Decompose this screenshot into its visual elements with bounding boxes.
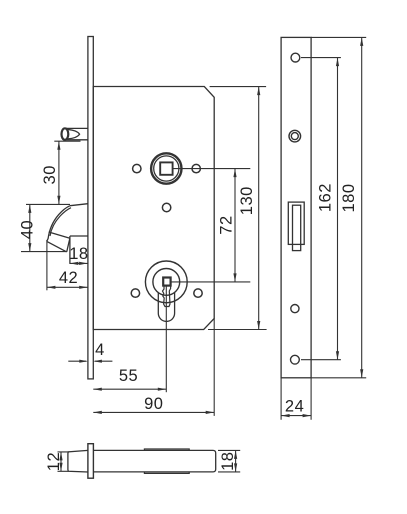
bottom screw hole [291,355,300,364]
extension line at hook bottom [21,251,66,253]
hook bolt top edge [70,204,88,206]
hole left of cylinder [131,289,139,297]
cylinder outer circle [145,261,187,303]
extension lines for 24 [281,378,311,420]
arrow 162 bottom [336,351,339,360]
follower square spindle hole [160,162,172,174]
latch bolt head ellipse [62,128,69,140]
arrow 4 right [93,360,102,363]
latch bolt top line [65,127,88,129]
extension line plate bottom [311,377,366,379]
hole right of cylinder [194,289,202,297]
arrow 162 top [336,58,339,67]
screw hole right of follower [192,164,200,172]
arrow 18 left [70,262,79,265]
latch cutout inner bolt [293,205,301,250]
svg-text:130: 130 [238,186,256,215]
extension lines for 18 (bottom) [218,450,240,472]
svg-text:42: 42 [59,269,78,287]
extension line from follower [174,168,251,170]
svg-text:180: 180 [340,183,358,212]
svg-text:72: 72 [218,215,236,234]
dimension line 90 [93,411,214,413]
dimension line 42 [47,286,88,288]
dimension line 55 [93,388,166,390]
arrow 130 bottom [257,321,260,330]
svg-text:18: 18 [69,245,88,263]
arrow 55 left [93,388,102,391]
cylinder profile stem [158,293,174,322]
dimension line 4 left segment [68,360,86,362]
extension line from cylinder center down [165,286,167,392]
lock body outline [93,87,214,330]
extension line under latch [54,140,80,142]
dimension line 130 [258,87,260,330]
arrow 30 bottom [57,196,60,205]
svg-text:40: 40 [18,220,36,239]
arrow 130 top [257,87,260,96]
hook bolt bevel face top [49,232,70,238]
extension lines for 12 [58,452,69,471]
extension line plate top [311,36,366,38]
svg-text:18: 18 [219,452,237,471]
top screw hole [291,53,300,62]
case overlay top [144,449,189,450]
svg-text:24: 24 [285,398,304,416]
svg-text:90: 90 [144,395,163,413]
arrow 90 right [206,411,215,414]
lower hole [291,305,299,313]
dimension line 4 right segment [95,360,113,362]
extension line body top right [210,86,267,88]
latch cutout outer [288,202,304,244]
arrow 12 top [59,452,62,461]
hook bolt outer arc [47,206,70,242]
arrow 180 bottom [360,369,363,378]
arrow 18 right [79,262,88,265]
arrow 40 top [28,204,31,213]
faceplate strip (main view) [88,37,93,379]
svg-text:30: 30 [41,165,59,184]
extension line body bottom right [208,329,267,331]
hook stem left edge / extension [69,236,71,264]
dimension line 162 [337,58,339,360]
faceplate (right view) [281,37,311,377]
latch bolt bevel wedge [68,130,80,139]
dimension line 30 [58,141,60,204]
svg-text:55: 55 [119,367,138,385]
arrow 90 left [93,411,102,414]
hook stem top edge [70,235,88,237]
svg-text:12: 12 [45,452,63,471]
arrow 24 right [303,414,312,417]
arrow 12 bottom [59,463,62,472]
arrow 18b bottom [234,463,237,472]
dimension line 180 [361,37,363,377]
extension line from cylinder center right [171,281,250,283]
follower outer circle [151,153,181,183]
hook bolt inner arc [50,208,71,236]
dimension line 24 [281,415,311,417]
svg-text:4: 4 [95,341,105,359]
keyway profile [163,286,171,307]
arrow 72 bottom [233,273,236,282]
faceplate bar (bottom view) [88,444,94,479]
arrow 40 bottom [28,243,31,252]
arrow 18b top [234,450,237,459]
follower inner circle [154,156,179,181]
arrow 180 top [360,37,363,46]
case overlay bottom [144,472,189,474]
screw hole left of follower [133,164,141,172]
arrow 24 left [281,414,290,417]
extension line from top screw [301,57,341,59]
dimension line 18 (bottom) [235,450,237,472]
extension line from bottom screw [301,359,341,361]
arrow 4 left [79,360,88,363]
latch head (bottom view) [68,450,88,472]
key square [163,278,170,286]
dimension line 40 [29,204,31,251]
dimension line 72 [234,169,236,282]
arrow 30 top [57,141,60,150]
hook bolt bevel right edge [67,238,70,252]
hook bolt bottom edge [47,241,67,252]
latch bolt bottom line [65,139,88,141]
svg-text:162: 162 [317,183,335,212]
dimension line 18 (hook stem) [70,262,88,264]
countersunk hole outer [289,130,301,142]
extension line body right edge down [213,319,215,416]
cylinder profile circle [153,269,180,296]
arrow 42 left [47,286,56,289]
countersunk hole inner [291,133,298,140]
arrow 55 right [158,388,167,391]
arrow 72 top [233,169,236,178]
extension line for 42 [46,240,48,290]
dimension line 12 [60,452,62,471]
case bar (bottom view) [93,450,215,472]
arrow 42 right [79,286,88,289]
extension line at hook top [26,203,70,205]
hole below follower [162,203,170,211]
